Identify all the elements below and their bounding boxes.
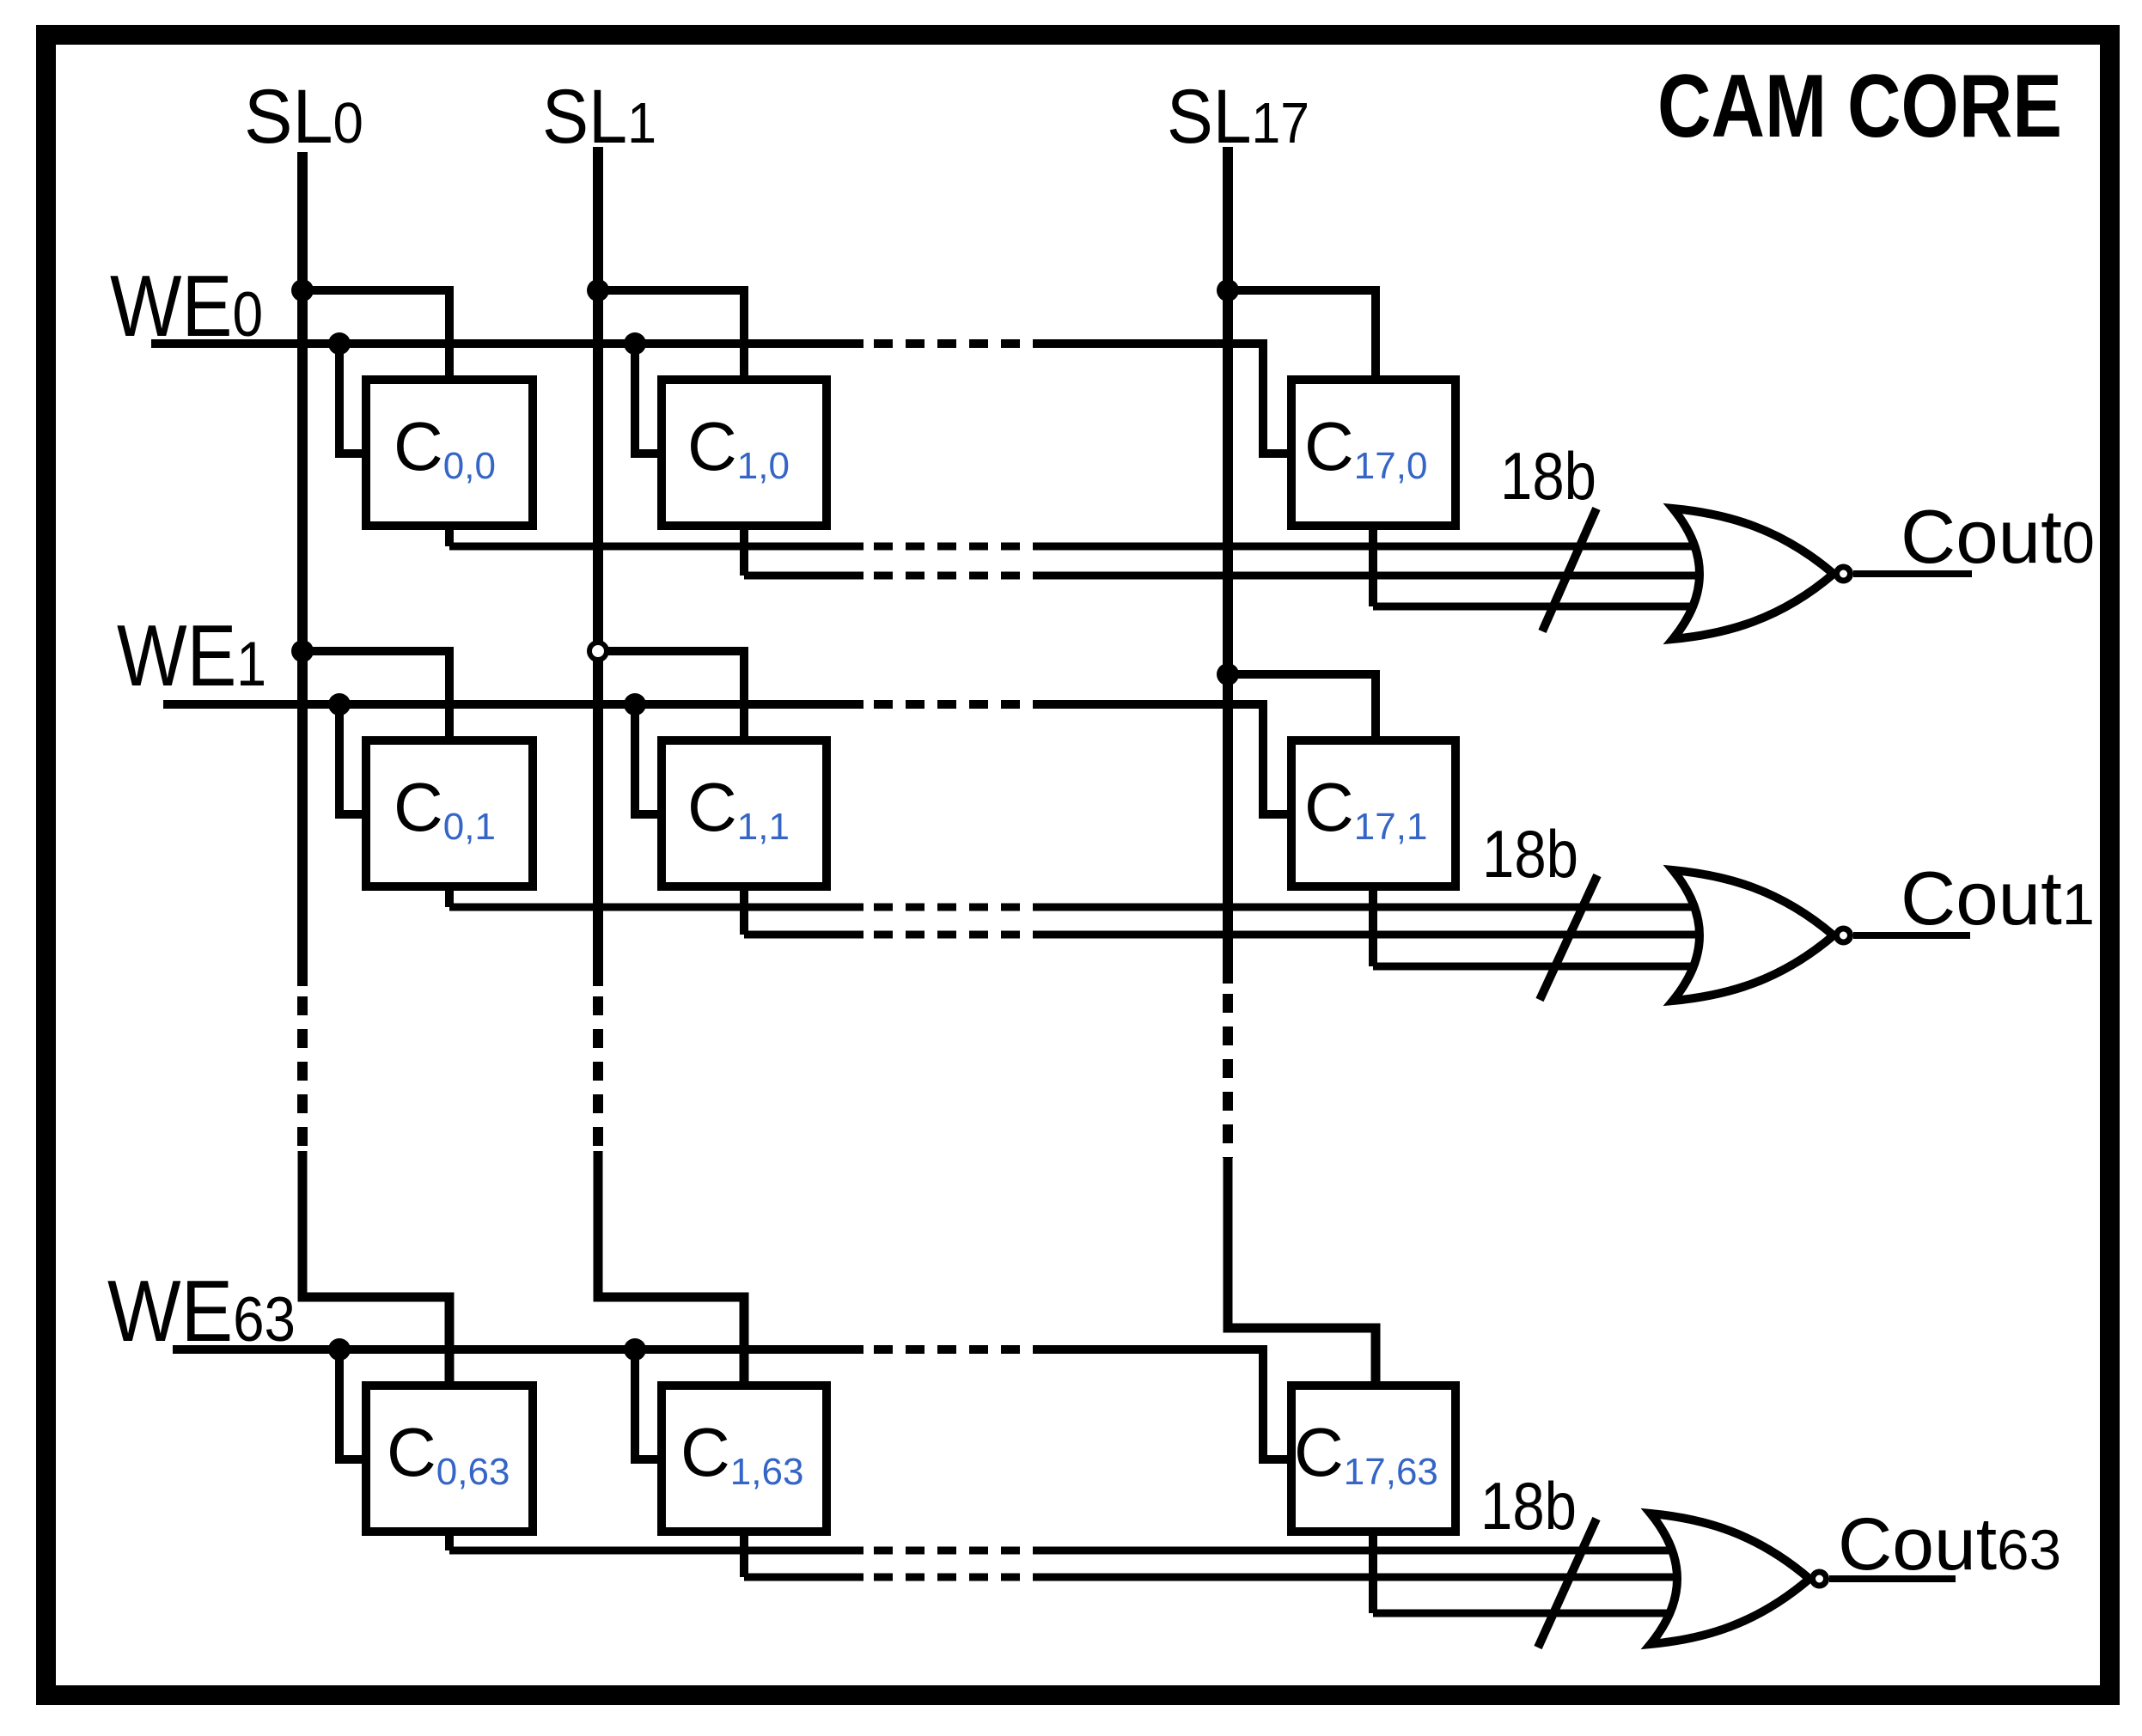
wire match-line stub from C17,63 <box>1369 1532 1377 1613</box>
node junction on WE1 at col 0 <box>328 693 351 716</box>
CAM cell C1,1 <box>662 740 827 886</box>
node junction on WE63 at col 0 <box>328 1338 351 1361</box>
svg-text:18b: 18b <box>1482 816 1578 892</box>
wire word line WE63 <box>173 1345 864 1354</box>
CAM cell C0,1 <box>366 740 533 886</box>
wire match line 2 row 63 right segment <box>1035 1574 1718 1581</box>
wire match-line stub from C0,1 <box>445 886 454 907</box>
wire word line WE0 <box>151 339 864 348</box>
wire match line 1 row 63 right segment <box>1035 1547 1718 1555</box>
wire SL0 tap into cell row 0 <box>302 290 449 380</box>
wire match-line stub from C1,63 <box>740 1532 748 1577</box>
NOR gate U0 <box>1673 509 1834 639</box>
NOR gate U1 output bubble <box>1837 929 1851 942</box>
wire match line 3 row 1 <box>1373 963 1718 971</box>
wire word line WE0 right segment bending into C17 cell <box>1035 344 1291 454</box>
wire match line 2 row 1 <box>744 931 864 939</box>
wire SL0 dashed continuation <box>297 996 308 1151</box>
NOR gate U63 <box>1651 1514 1809 1644</box>
wire SL0 vertical <box>297 152 308 986</box>
wire match line 2 row 0 <box>744 572 864 580</box>
wire WE1 stub into C1,1 <box>635 704 662 814</box>
wire match-line stub from C0,63 <box>445 1532 454 1550</box>
node junction on WE0 at col 1 <box>624 332 646 355</box>
wire match line 2 row 0 right segment <box>1035 572 1718 580</box>
node junction SL17/WE1 tap <box>1217 663 1239 685</box>
wire SL1 tap into cell row 0 <box>598 290 744 380</box>
node junction on WE1 at col 1 <box>624 693 646 716</box>
wire SL1 dashed continuation <box>593 996 603 1151</box>
wire match line 1 row 0 dashed segment <box>874 543 1035 551</box>
bus slash 18b row 63 <box>1538 1519 1596 1648</box>
wire match line 1 row 1 right segment <box>1035 904 1718 911</box>
svg-text:18b: 18b <box>1480 1468 1577 1544</box>
wire word line WE1 right segment bending into C17 cell <box>1035 704 1291 814</box>
wire match-line stub from C17,0 <box>1369 526 1377 606</box>
wire word line WE1 dashed segment <box>874 700 1035 709</box>
wire WE63 stub into C1,63 <box>635 1349 662 1459</box>
node junction SL0/WE0 tap <box>291 279 314 302</box>
wire word line WE0 dashed segment <box>874 339 1035 348</box>
wire match line 1 row 1 dashed segment <box>874 904 1035 911</box>
node junction SL0/WE1 tap <box>291 640 314 662</box>
wire match line 1 row 0 right segment <box>1035 543 1718 551</box>
wire match line 1 row 0 <box>449 543 864 551</box>
node junction SL1/WE0 tap <box>587 279 609 302</box>
wire match line 1 row 63 <box>449 1547 864 1555</box>
CAM cell C17,1 <box>1291 740 1455 886</box>
node junction SL17/WE0 tap <box>1217 279 1239 302</box>
node open circle no-connect SL1/WE1 <box>589 643 607 660</box>
bus slash 18b row 1 <box>1540 875 1597 1000</box>
wire SL17 lower segment bending into C17,63 <box>1228 1158 1376 1386</box>
wire SL17 tap into cell row 0 <box>1228 290 1376 380</box>
wire word line WE1 <box>163 700 864 709</box>
wire SL17 vertical <box>1223 147 1233 984</box>
wire match-line stub from C1,1 <box>740 886 748 935</box>
wire match line 3 row 63 <box>1373 1610 1718 1617</box>
wire SL17 dashed continuation <box>1223 994 1233 1158</box>
svg-text:CAM CORE: CAM CORE <box>1657 57 2062 156</box>
wire match-line stub from C17,1 <box>1369 886 1377 966</box>
wire match line 2 row 1 dashed segment <box>874 931 1035 939</box>
wire SL0 lower segment bending into C0,63 <box>302 1151 449 1386</box>
CAM cell C1,63 <box>662 1386 827 1532</box>
wire match-line stub from C0,0 <box>445 526 454 546</box>
wire WE1 stub into C0,1 <box>339 704 366 814</box>
wire WE0 stub into C1,0 <box>635 344 662 454</box>
wire match-line stub from C1,0 <box>740 526 748 576</box>
wire SL1 tap into cell row 1 <box>598 651 744 740</box>
bus slash 18b row 0 <box>1542 509 1596 631</box>
CAM cell C1,0 <box>662 380 827 526</box>
wire SL0 tap into cell row 1 <box>302 651 449 740</box>
wire SL1 lower segment bending into C1,63 <box>598 1151 744 1386</box>
wire match line 2 row 0 dashed segment <box>874 572 1035 580</box>
NOR gate U63 output bubble <box>1813 1572 1827 1586</box>
wire SL1 vertical <box>593 147 603 986</box>
wire match line 1 row 63 dashed segment <box>874 1547 1035 1555</box>
wire SL17 tap into cell row 1 <box>1228 674 1376 740</box>
CAM cell C0,63 <box>366 1386 533 1532</box>
CAM cell C17,0 <box>1291 380 1455 526</box>
wire Cout0 output <box>1853 570 1972 577</box>
NOR gate U0 output bubble <box>1837 567 1851 581</box>
CAM cell C0,0 <box>366 380 533 526</box>
wire WE63 stub into C0,63 <box>339 1349 366 1459</box>
node junction on WE0 at col 0 <box>328 332 351 355</box>
wire Cout63 output <box>1829 1575 1956 1582</box>
wire match line 2 row 1 right segment <box>1035 931 1718 939</box>
wire WE0 stub into C0,0 <box>339 344 366 454</box>
node junction on WE63 at col 1 <box>624 1338 646 1361</box>
CAM cell C17,63 <box>1291 1386 1455 1532</box>
wire match line 2 row 63 dashed segment <box>874 1574 1035 1581</box>
wire word line WE63 dashed segment <box>874 1345 1035 1354</box>
wire Cout1 output <box>1853 932 1970 939</box>
svg-text:18b: 18b <box>1500 438 1596 514</box>
wire match line 1 row 1 <box>449 904 864 911</box>
wire match line 2 row 63 <box>744 1574 864 1581</box>
wire word line WE63 right segment bending into C17 cell <box>1035 1349 1291 1459</box>
NOR gate U1 <box>1673 870 1834 1001</box>
wire match line 3 row 0 <box>1373 603 1718 611</box>
